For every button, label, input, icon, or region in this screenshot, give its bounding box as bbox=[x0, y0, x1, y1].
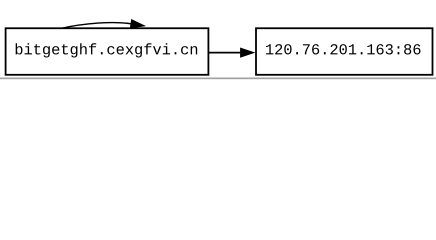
node bitgetghf.cexgfvi.cn box bbox=[6, 28, 209, 75]
edge wire: bitgetghf.cexgfvi.cn -> 120.76.201.163:86 bbox=[209, 52, 241, 54]
node 120.76.201.163:86 box bbox=[256, 28, 433, 75]
separator line bbox=[0, 78, 436, 80]
node 120.76.201.163:86 label text bbox=[266, 44, 420, 54]
self-loop edge wire on bitgetghf.cexgfvi.cn bbox=[61, 23, 132, 29]
node bitgetghf.cexgfvi.cn label text bbox=[16, 43, 198, 57]
self-loop arrowhead bbox=[130, 20, 144, 28]
edge arrowhead bbox=[241, 48, 254, 57]
